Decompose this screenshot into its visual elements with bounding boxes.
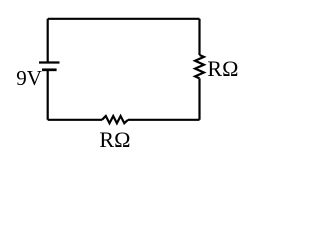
battery B1 negative plate (short) xyxy=(42,68,57,71)
wire left-top xyxy=(47,19,49,63)
wire right-top xyxy=(198,19,200,55)
svg-text:RΩ: RΩ xyxy=(207,56,238,81)
resistor R2 (bottom, horizontal) xyxy=(102,116,128,123)
wire top (node A to node B) xyxy=(48,18,200,20)
battery B1 positive plate (long) xyxy=(39,61,60,63)
wire left-bottom xyxy=(47,70,49,120)
wire bottom-right xyxy=(128,119,200,121)
resistor R1 (right, vertical) xyxy=(195,55,204,78)
svg-text:9V: 9V xyxy=(16,66,42,90)
wire right-bottom xyxy=(198,78,200,119)
svg-text:RΩ: RΩ xyxy=(99,127,130,152)
wire bottom-left xyxy=(48,119,102,121)
